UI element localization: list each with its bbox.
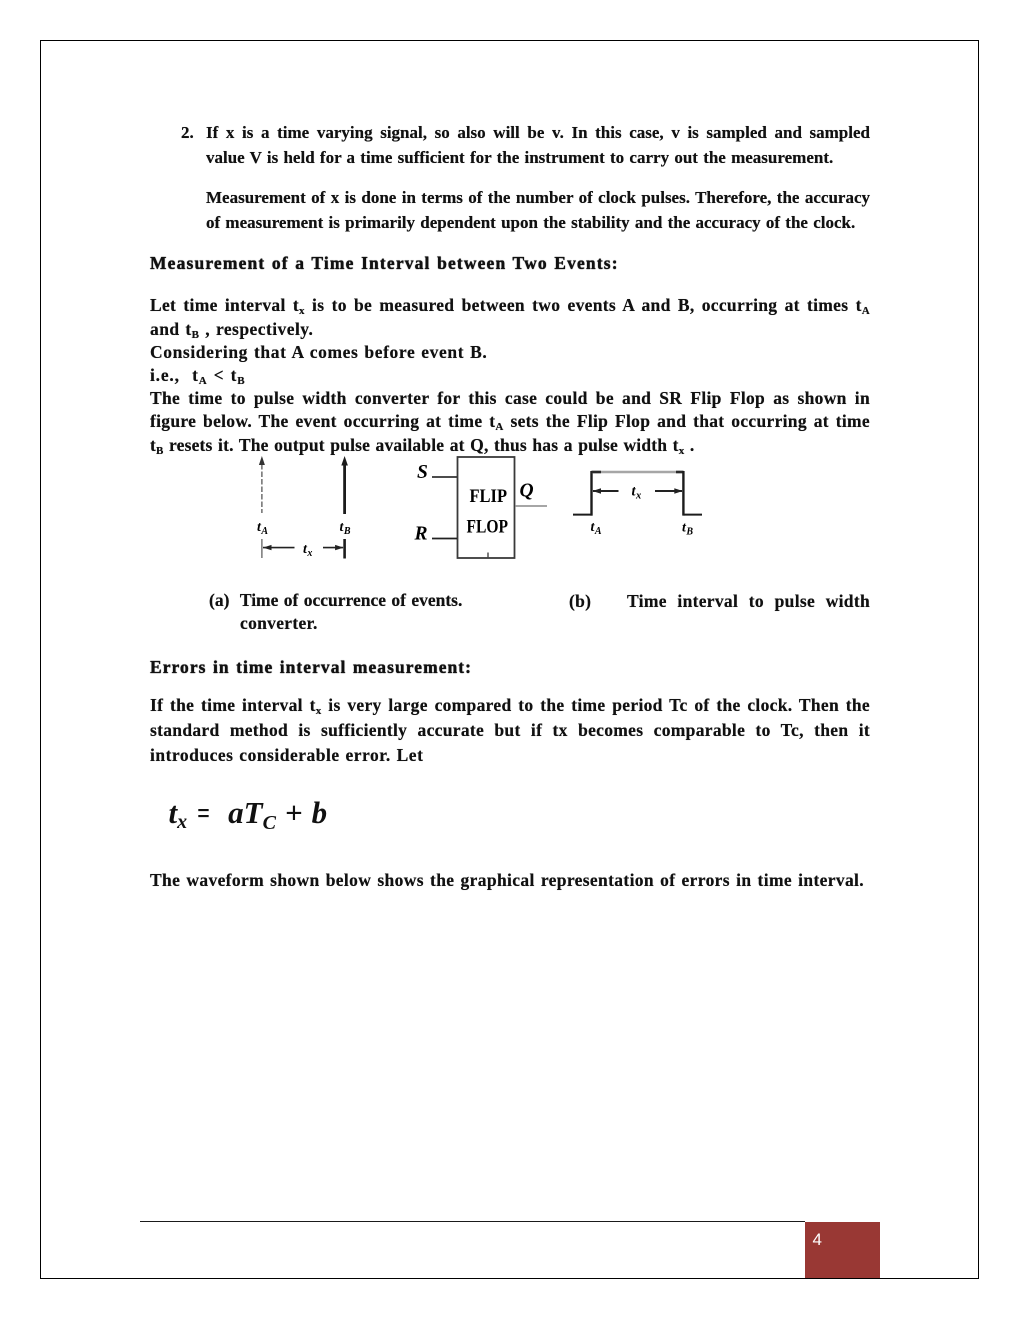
dimension tick left	[261, 539, 263, 558]
item 2 paragraph	[206, 120, 870, 170]
pulse baseline right	[683, 514, 702, 516]
R input wire	[432, 538, 457, 540]
footer rule	[140, 1221, 805, 1222]
svg-text:tA: tA	[591, 520, 602, 537]
svg-text:tA: tA	[257, 520, 268, 537]
S input wire	[432, 476, 457, 478]
dimension tick right	[343, 539, 346, 559]
svg-text:FLIP: FLIP	[470, 486, 508, 507]
caption (a)	[209, 589, 529, 635]
caption (b)	[569, 590, 591, 613]
pulse rising edge	[590, 471, 592, 516]
pulse falling edge	[682, 471, 684, 516]
svg-text:Q: Q	[520, 481, 534, 502]
dimension arrow left	[263, 545, 295, 550]
pulse top (gray)	[592, 471, 684, 474]
flip flop box	[458, 457, 515, 558]
paragraph: The waveform shown below	[150, 869, 864, 892]
svg-text:R: R	[414, 524, 428, 545]
item number 2.	[181, 120, 194, 145]
pulse baseline left	[573, 514, 593, 516]
page number 4	[813, 1231, 822, 1248]
equation tx = aTc + b	[169, 795, 328, 835]
box bottom tick (scan artifact)	[487, 553, 489, 559]
heading: Measurement of a Time Interval between Two Events:	[150, 251, 619, 275]
figure: SR flip flop and waveforms	[240, 450, 710, 565]
pulse width arrow left	[593, 488, 619, 494]
svg-text:tB: tB	[682, 521, 693, 538]
second indented paragraph	[206, 185, 870, 235]
heading: Errors in time interval measurement:	[150, 655, 472, 679]
event arrow tB (thick)	[341, 456, 348, 514]
paragraph: Let time interval	[150, 294, 870, 456]
paragraph: If the time interval	[150, 693, 870, 768]
svg-text:tx: tx	[303, 542, 312, 559]
dimension arrow right	[323, 545, 344, 550]
Q output wire	[515, 505, 547, 507]
page number box	[805, 1222, 880, 1278]
svg-text:FLOP: FLOP	[467, 516, 509, 537]
svg-text:tx: tx	[632, 484, 642, 502]
svg-text:S: S	[417, 462, 428, 483]
pulse width arrow right	[655, 488, 683, 494]
svg-text:tB: tB	[340, 520, 351, 537]
event arrow tA (thin dashed)	[259, 456, 265, 513]
